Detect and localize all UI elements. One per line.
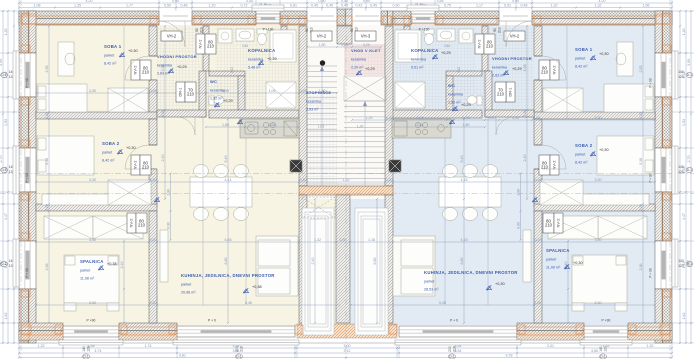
top wall left (over soba1) [19,11,159,25]
svg-text:0,20: 0,20 [300,178,307,182]
svg-text:1,32 m²: 1,32 m² [210,97,223,101]
door label VH-2 stair [311,31,332,41]
furniture [645,99,653,110]
svg-text:8,80: 8,80 [460,258,464,265]
top wall right (over soba1 r) [532,11,672,25]
svg-text:0,20: 0,20 [533,116,540,120]
stair block orange wall [299,186,393,195]
svg-text:VHOD V KLET: VHOD V KLET [351,48,381,53]
wall bath/kitchen [209,110,299,118]
right dim overall [687,10,692,344]
svg-text:200: 200 [235,346,239,352]
svg-text:parket: parket [80,269,90,273]
svg-text:210: 210 [498,27,502,33]
svg-text:3,08: 3,08 [523,65,527,72]
dimension line [373,198,378,324]
svg-text:1,32: 1,32 [647,344,654,348]
wall r [534,211,542,323]
washbasin left [236,29,254,41]
stair direction arrows [320,66,324,71]
svg-text:210: 210 [545,223,553,228]
bottom dim mid [18,349,673,354]
door label NV-2 size [205,34,216,54]
svg-text:210: 210 [497,92,505,97]
svg-text:0,20: 0,20 [45,112,49,119]
wall r [485,110,534,117]
left wall seg1 [19,11,36,53]
wardrobe soba1 r [543,88,583,112]
svg-text:0,42: 0,42 [356,4,363,8]
svg-text:keramika: keramika [351,58,367,62]
furniture [107,303,119,311]
svg-text:1,80: 1,80 [319,43,326,47]
ventilation shaft [389,160,401,172]
dimension line [564,240,569,324]
svg-text:2,84: 2,84 [444,44,450,48]
svg-text:0,90: 0,90 [172,0,179,3]
svg-text:1,32: 1,32 [595,4,602,8]
svg-text:1,32: 1,32 [551,4,558,8]
svg-text:120: 120 [604,346,608,352]
svg-text:0,45: 0,45 [311,4,318,8]
door label VH-3 klet [355,31,376,41]
svg-text:4,65: 4,65 [591,349,598,353]
svg-text:3,00: 3,00 [344,344,351,348]
stair block floor [299,25,393,325]
svg-text:D-1: D-1 [449,355,454,359]
wall r [534,26,542,56]
dimension line [224,118,229,324]
bottom dim fine [18,344,673,349]
furniture [65,256,75,265]
left dim mid [4,10,9,344]
svg-text:1,62: 1,62 [682,313,686,320]
furniture [401,268,433,294]
svg-text:140: 140 [82,346,86,352]
top wall right a [393,11,411,25]
door label NV-2 size [140,155,151,175]
svg-text:2,84: 2,84 [269,123,276,127]
svg-text:210: 210 [207,44,215,49]
left wall seg4 [19,289,36,343]
dashed skylight box [302,197,335,218]
level marker [532,197,537,202]
ventilation shaft [290,160,302,172]
svg-text:140: 140 [678,70,684,74]
level marker [564,264,569,269]
furniture [604,84,654,112]
left wall seg3 [19,192,36,241]
svg-text:parket: parket [575,57,585,61]
svg-text:5,40: 5,40 [460,156,464,163]
stair door leaf [307,16,337,21]
svg-text:NV-2: NV-2 [129,218,134,228]
svg-text:140: 140 [678,165,684,169]
svg-text:1,08: 1,08 [34,4,41,8]
dimension line [205,123,300,128]
svg-text:20,96 m²: 20,96 m² [181,291,196,295]
svg-text:0,90: 0,90 [512,0,519,3]
svg-text:+0,38: +0,38 [107,262,117,266]
svg-text:0,72: 0,72 [241,4,248,8]
svg-text:P + 90: P + 90 [649,268,653,277]
furniture [38,138,46,150]
svg-text:P + 0: P + 0 [208,319,216,323]
wardrobe soba2 [108,180,151,205]
dimension line [35,89,338,94]
svg-text:1,29: 1,29 [341,43,348,47]
svg-text:2,70: 2,70 [687,156,691,163]
top dim fine [18,4,673,9]
svg-text:2,55: 2,55 [45,66,49,73]
svg-text:SOBA 1: SOBA 1 [104,44,122,49]
wardrobe [598,216,647,239]
furniture [645,138,653,150]
window P+90 spalnica r [584,326,628,337]
svg-text:VHODNI PROSTOR: VHODNI PROSTOR [157,54,197,59]
furniture [256,236,298,296]
window mark [600,354,607,359]
svg-text:11,09 m²: 11,09 m² [546,266,561,270]
DR-1 size [185,82,196,102]
svg-text:DR-1: DR-1 [509,88,513,97]
left dim fine [13,10,15,344]
window mark [83,354,90,359]
stair column dot [320,60,325,65]
entry tiles right [482,26,534,117]
door label NV-2 size [543,213,554,233]
svg-text:NV-2: NV-2 [133,65,138,75]
svg-text:90: 90 [493,28,497,32]
extension lines soba1 [124,26,567,119]
furniture [617,42,633,76]
svg-text:3,20: 3,20 [363,43,370,47]
level marker [214,102,219,107]
svg-text:SPALNICA: SPALNICA [80,259,104,264]
level marker [258,60,263,65]
entrance door VH-2 leaf [159,16,192,21]
wc toilet left [209,96,224,105]
svg-text:keramika: keramika [248,58,264,62]
window P+130 left [256,14,280,23]
svg-text:9,78: 9,78 [506,354,513,358]
svg-text:D-1: D-1 [600,355,605,359]
svg-text:0,90: 0,90 [517,222,521,229]
door swing arcs [125,21,566,169]
svg-text:2,40: 2,40 [523,155,527,162]
svg-text:1,53: 1,53 [682,119,686,126]
furniture [572,303,584,311]
svg-text:3,09: 3,09 [0,59,3,66]
svg-text:210: 210 [142,70,150,75]
toilet left bath [257,29,267,45]
svg-text:0,20: 0,20 [535,178,542,182]
level marker [449,119,454,124]
svg-text:0,45: 0,45 [370,4,377,8]
furniture [572,255,627,303]
window mark [236,354,243,359]
kitchen counter right [392,119,451,138]
svg-text:P +130: P +130 [419,28,430,32]
svg-text:5,48 m²: 5,48 m² [248,66,261,70]
svg-text:P +90: P +90 [602,319,611,323]
wall r [446,76,453,110]
svg-text:0,48: 0,48 [521,4,528,8]
door label NV-2 [475,34,484,54]
svg-text:8,42 m²: 8,42 m² [575,65,588,69]
furniture [58,42,74,76]
left unit floor (parquet cream) [36,25,299,325]
door label VH-2 left entry [161,31,182,41]
level marker [154,197,159,202]
svg-text:1,26: 1,26 [682,29,686,36]
svg-text:2,04: 2,04 [417,116,424,120]
furniture [108,256,118,265]
wardrobe soba1 [108,88,148,112]
svg-text:+0,30: +0,30 [599,148,609,152]
svg-text:0,20: 0,20 [45,204,49,211]
level marker [168,68,173,73]
svg-text:NV-2: NV-2 [198,39,203,49]
door label VH-2 right entry [504,31,525,41]
dimension line [350,301,656,306]
bottom wall seg1 [19,323,63,340]
svg-text:90: 90 [305,28,309,32]
top dim overall [18,0,673,4]
svg-text:0,48: 0,48 [181,4,188,8]
corridor left floor [299,199,336,325]
door label NV-2 size [484,34,495,54]
svg-text:parket: parket [104,54,114,58]
wall r [534,80,542,114]
furniture [439,177,501,207]
wall entry bottom [157,110,206,117]
svg-text:3,30: 3,30 [89,301,96,305]
bottom wall seg3 [517,323,584,340]
furniture [38,99,46,110]
svg-text:2,20 m²: 2,20 m² [351,66,364,70]
svg-text:1,35: 1,35 [74,4,81,8]
svg-text:6,80: 6,80 [373,258,377,265]
wall r [446,71,482,76]
svg-text:1,80: 1,80 [167,189,171,196]
furniture [645,160,653,172]
svg-text:9,81: 9,81 [179,354,186,358]
svg-text:210: 210 [187,92,195,97]
door label NV-2 size [539,155,550,175]
furniture [270,30,296,62]
window mark [1,261,8,266]
bathroom tiles right [392,26,476,112]
wall r [534,119,542,145]
svg-text:3,30: 3,30 [595,178,602,182]
furniture [393,236,435,296]
svg-text:1,26: 1,26 [4,29,8,36]
svg-text:NV-2: NV-2 [552,160,557,170]
svg-text:120: 120 [678,170,684,174]
door label NV-2 [196,34,205,54]
svg-text:2,70: 2,70 [0,156,3,163]
svg-text:1,47: 1,47 [682,213,686,220]
stair door leaf [352,16,382,21]
svg-text:parket: parket [575,153,585,157]
right dim fine [679,10,681,344]
svg-text:1,53: 1,53 [4,119,8,126]
svg-text:3,63 m²: 3,63 m² [306,108,319,112]
furniture [218,29,232,43]
svg-text:1,77: 1,77 [126,4,133,8]
furniture [569,194,649,205]
wc tiles left [206,76,238,110]
furniture [258,268,290,294]
svg-text:D-1: D-1 [687,168,692,172]
dimension line [460,118,465,324]
entry tiles left [157,26,209,117]
svg-text:8,42 m²: 8,42 m² [104,62,117,66]
svg-text:NV-2: NV-2 [133,160,138,170]
svg-text:0,90: 0,90 [167,222,171,229]
door label DR-1 left [176,82,185,102]
bottom wall orange overlay [19,332,63,341]
top window sills [252,5,284,11]
wall soba2 right lower [149,169,157,207]
svg-text:218: 218 [453,346,457,352]
dimension line [161,25,166,200]
bottom outer edge line [19,342,672,344]
svg-text:0,50: 0,50 [164,4,171,8]
wall spalnica right [149,211,157,323]
window mark [1,72,8,77]
svg-text:D-1: D-1 [236,355,241,359]
svg-text:3,30: 3,30 [89,89,96,93]
svg-text:1,03: 1,03 [318,125,325,129]
svg-text:WC: WC [448,83,455,88]
right wall seg3 [655,192,672,241]
window mark [1,167,8,172]
corridor tall door frame [355,208,388,335]
svg-text:NV-2: NV-2 [552,65,557,75]
svg-text:1,29: 1,29 [366,116,373,120]
svg-text:D-1: D-1 [687,73,692,77]
svg-text:D-1: D-1 [687,262,692,266]
svg-text:0,90: 0,90 [393,4,400,8]
stair wall left [299,26,307,186]
terrace door P+0 left [177,326,295,337]
wall bath right stub [281,26,287,46]
svg-text:VH-2: VH-2 [510,34,520,39]
top wall over entry/bath left [192,11,256,25]
right unit floor (light blue) [393,25,656,325]
svg-text:120: 120 [678,264,684,268]
svg-text:0,20: 0,20 [386,116,393,120]
svg-text:8,42 m²: 8,42 m² [575,161,588,165]
svg-text:3,30: 3,30 [595,301,602,305]
window D-1 soba2 [19,148,36,192]
svg-text:2,40: 2,40 [311,258,315,265]
door label NV-2 [131,60,140,80]
svg-text:3,38: 3,38 [45,158,49,165]
svg-text:0,90: 0,90 [363,0,370,3]
svg-text:0,51: 0,51 [504,4,511,8]
svg-text:0,75: 0,75 [444,4,451,8]
side window sills [13,51,678,99]
svg-text:140: 140 [599,346,603,352]
svg-text:P + 90: P + 90 [25,173,29,182]
terrace door P+0 right [399,326,517,337]
svg-text:2,01: 2,01 [547,344,554,348]
door label NV-2 [127,213,136,233]
svg-text:+0,38: +0,38 [252,285,262,289]
door label NV-2 size [539,60,550,80]
right wall seg2 [655,97,672,148]
level marker [237,119,242,124]
svg-text:+0,29: +0,29 [512,67,522,71]
svg-text:0,20: 0,20 [150,89,157,93]
svg-text:0,20: 0,20 [150,178,157,182]
svg-text:1,62: 1,62 [4,313,8,320]
niche dims left [167,172,172,241]
svg-text:1,80: 1,80 [517,189,521,196]
svg-text:3,09: 3,09 [687,59,691,66]
wall r [404,26,410,46]
door label DR-1 right [506,82,515,102]
wall soba1/soba2 [36,112,157,119]
right wall seg1 [655,11,672,53]
svg-text:8,80: 8,80 [224,258,228,265]
svg-text:P +90: P +90 [87,319,96,323]
svg-text:D-1: D-1 [1,168,6,172]
svg-text:D-1: D-1 [1,73,6,77]
furniture [616,256,626,265]
dimension line [45,25,50,324]
left wall seg2 [19,97,36,148]
svg-text:0,20: 0,20 [534,301,541,305]
dimension line [311,198,316,324]
corridor right floor [350,199,393,325]
furniture [645,86,653,97]
wall r [534,169,542,207]
svg-text:3,38: 3,38 [639,158,643,165]
dimension line [351,116,656,121]
furniture [38,86,46,97]
toilet right bath [424,29,434,45]
dimension line [392,123,486,128]
entrance door VH-2 leaf [499,16,532,21]
level marker [590,55,595,60]
furniture [160,230,168,282]
svg-text:parket: parket [181,283,191,287]
svg-text:0,20: 0,20 [386,178,393,182]
svg-text:+0,29: +0,29 [223,99,233,103]
top wall stair left [280,11,307,25]
svg-text:3,55: 3,55 [437,0,444,3]
svg-text:1,32: 1,32 [38,344,45,348]
low cabinet soba2 [42,194,122,205]
level marker [119,52,124,57]
svg-text:200: 200 [448,346,452,352]
interior extension lines living [157,117,534,323]
svg-text:1,17: 1,17 [476,4,483,8]
window D-1 soba1 [19,53,36,97]
svg-text:SOBA 2: SOBA 2 [575,143,593,148]
svg-text:D-1: D-1 [1,262,6,266]
center pillar lower [337,26,352,44]
top center pillar [337,9,352,26]
svg-text:KOPALNICA: KOPALNICA [411,48,438,53]
svg-text:+0,29: +0,29 [267,57,277,61]
level marker [452,106,457,111]
level marker [117,149,122,154]
